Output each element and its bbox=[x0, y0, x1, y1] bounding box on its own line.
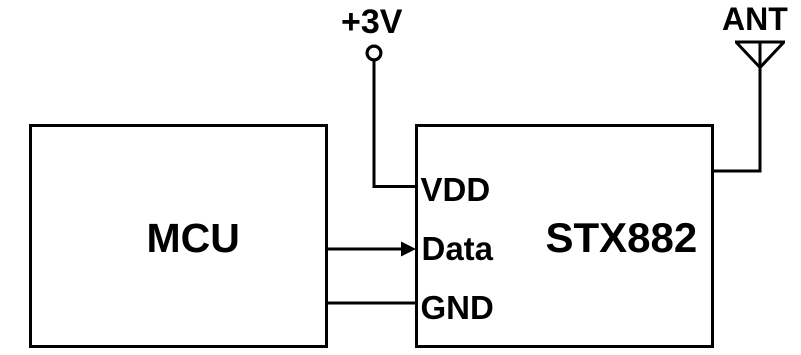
svg-text:+3V: +3V bbox=[341, 3, 403, 41]
svg-text:GND: GND bbox=[421, 289, 494, 326]
svg-text:MCU: MCU bbox=[147, 215, 240, 261]
svg-text:ANT: ANT bbox=[722, 1, 788, 37]
svg-text:STX882: STX882 bbox=[546, 214, 698, 261]
svg-text:VDD: VDD bbox=[421, 171, 491, 208]
svg-text:Data: Data bbox=[422, 230, 494, 267]
